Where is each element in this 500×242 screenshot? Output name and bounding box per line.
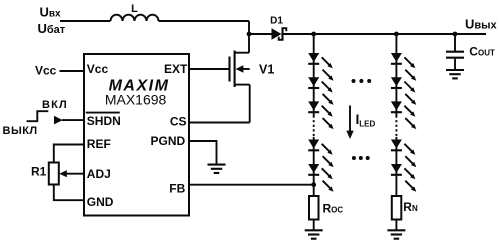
LED string1 led2 (308, 77, 333, 105)
svg-text:LED: LED (359, 120, 375, 129)
wire string1 upper (313, 34, 315, 116)
pin label SHDN with overline (86, 113, 121, 129)
ground RN (387, 230, 405, 238)
svg-text:Uвых: Uвых (465, 16, 498, 31)
svg-text:RN: RN (403, 200, 418, 214)
svg-text:ADJ: ADJ (87, 167, 111, 181)
junction dot string1 (311, 32, 316, 37)
LED string2 led3 (391, 101, 416, 129)
svg-text:CS: CS (170, 114, 187, 128)
LED string2 led2 (391, 77, 416, 105)
wire Vcc (60, 70, 85, 72)
wire PGND (189, 141, 217, 164)
svg-text:EXT: EXT (164, 62, 188, 76)
svg-text:Uвх: Uвх (40, 5, 62, 20)
resistor RN (392, 196, 418, 220)
svg-text:GND: GND (87, 195, 114, 209)
wire string1 dashed (313, 116, 315, 138)
wire string2 lower (395, 137, 397, 196)
LED string2 led5 (391, 164, 416, 192)
svg-text:ROC: ROC (323, 201, 344, 215)
svg-text:MAX1698: MAX1698 (105, 91, 167, 107)
wire string1 lower (313, 137, 315, 196)
potentiometer R1 (31, 163, 84, 185)
wire string2 upper (395, 34, 397, 116)
capacitor COUT (446, 34, 495, 69)
resistor ROC (309, 196, 343, 220)
wire pot bottom to GND pin (54, 185, 84, 201)
svg-text:ВКЛ: ВКЛ (42, 99, 68, 111)
arrow into SHDN (54, 116, 63, 125)
svg-text:R1: R1 (31, 165, 47, 179)
wire string2 dashed (395, 116, 397, 138)
ground ROC (305, 230, 323, 238)
svg-text:D1: D1 (270, 16, 283, 27)
inductor L (111, 3, 159, 21)
transistor V1 (189, 51, 274, 123)
wire to diode anode (249, 33, 272, 35)
junction dot Cout (453, 32, 458, 37)
svg-text:Vcc: Vcc (35, 63, 57, 77)
svg-text:L: L (131, 3, 138, 15)
wire REF to pot top (54, 145, 84, 163)
wire arrow to SHDN pin (62, 119, 84, 121)
svg-text:V1: V1 (259, 63, 274, 77)
diode D1 (270, 16, 286, 41)
wire diode to output (284, 33, 487, 35)
svg-text:ВЫКЛ: ВЫКЛ (3, 125, 38, 137)
wire input to inductor (60, 20, 111, 22)
svg-text:PGND: PGND (151, 134, 186, 148)
LED string2 led4 (391, 140, 416, 168)
junction dot FB tap (311, 182, 316, 187)
svg-text:FB: FB (169, 181, 185, 195)
svg-text:Vcc: Vcc (87, 62, 109, 76)
junction dot string2 (394, 32, 399, 37)
ellipsis upper (352, 79, 372, 83)
ellipsis lower (352, 156, 370, 160)
svg-text:REF: REF (87, 137, 111, 151)
current arrow ILED (346, 106, 375, 140)
op-amp U1 MAX1698 box (84, 54, 189, 216)
junction dot diode branch (247, 32, 252, 37)
LED string2 led1 (391, 53, 416, 81)
wire inductor to corner (159, 20, 250, 22)
LED string1 led4 (308, 140, 333, 168)
wire RN to ground (395, 220, 397, 230)
LED string1 led3 (308, 101, 333, 129)
svg-text:COUT: COUT (469, 44, 495, 58)
svg-text:Uбат: Uбат (38, 21, 66, 36)
wire CS to source (189, 122, 250, 124)
LED string1 led1 (308, 53, 333, 81)
wire ROC to ground (313, 220, 315, 230)
LED string1 led5 (308, 164, 333, 192)
svg-text:SHDN: SHDN (87, 114, 121, 128)
ground PGND (208, 165, 226, 173)
wire corner down to drain (248, 21, 250, 53)
ground Cout (446, 70, 464, 78)
wire FB to string1 (189, 184, 314, 186)
step waveform symbol (27, 111, 49, 121)
